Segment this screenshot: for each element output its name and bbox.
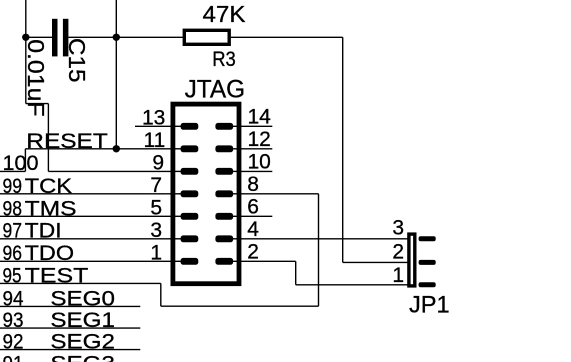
svg-text:6: 6 <box>247 195 259 218</box>
svg-text:3: 3 <box>392 216 404 239</box>
wire: JTAG pin 14 inner stub <box>231 125 241 127</box>
svg-text:SEG2: SEG2 <box>50 331 115 354</box>
svg-text:9: 9 <box>152 151 164 174</box>
wire: RESET net horizontal <box>25 148 171 150</box>
svg-text:8: 8 <box>247 173 259 196</box>
svg-text:TDO: TDO <box>25 242 75 265</box>
wire: JTAG pin 1 inner stub <box>171 260 182 262</box>
wire: JTAG pin 3 inner stub <box>171 238 182 240</box>
wire: to JP1 pin 1 <box>296 284 408 286</box>
svg-text:SEG0: SEG0 <box>50 287 115 310</box>
wire: JTAG pin 4 inner stub <box>231 238 241 240</box>
wire: JTAG pin 6 inner stub <box>231 215 241 217</box>
JTAG pin numbers left column <box>142 106 165 264</box>
header JP1 body <box>409 234 415 286</box>
svg-text:11: 11 <box>143 129 165 152</box>
svg-text:92: 92 <box>3 331 24 354</box>
svg-text:13: 13 <box>142 106 165 129</box>
wire: SEG0 stub <box>0 305 140 307</box>
svg-text:1: 1 <box>150 241 162 264</box>
resistor R3 body <box>184 30 229 44</box>
svg-text:10: 10 <box>248 150 271 173</box>
wire: TDI to JTAG pin 3 <box>0 238 172 240</box>
wire: JTAG pin 2 stub <box>240 260 295 262</box>
wire: vertical down to JP1 pin2 level <box>342 37 344 262</box>
wire: JTAG pin 12 stub <box>240 148 272 150</box>
wire: vertical from top edge into node A <box>25 0 27 104</box>
capacitor C15 right plate <box>63 19 69 57</box>
wire: TEST bottom horizontal <box>161 305 319 307</box>
JTAG pin 13 pad <box>181 123 199 130</box>
svg-text:14: 14 <box>248 105 272 128</box>
JTAG pin 8 pad <box>215 190 233 197</box>
JTAG pin 2 pad <box>215 258 233 265</box>
svg-text:TEST: TEST <box>25 265 89 288</box>
svg-text:47K: 47K <box>203 1 247 27</box>
svg-text:7: 7 <box>150 174 162 197</box>
JTAG pin 7 pad <box>181 190 199 197</box>
svg-text:TDI: TDI <box>25 220 62 243</box>
junction node B (116.3,37.3) <box>113 34 120 41</box>
wire: JTAG pin 7 inner stub <box>171 193 182 195</box>
svg-text:12: 12 <box>248 128 271 151</box>
junction node C on RESET (116.3,148.8) <box>113 145 120 152</box>
wire: to JTAG pin 9 <box>48 170 171 172</box>
wire: JTAG pin 9 inner stub <box>171 170 182 172</box>
JP1 pin pad 3 <box>419 236 436 241</box>
JP1 pin pad 2 <box>419 260 436 265</box>
svg-text:5: 5 <box>150 196 162 219</box>
wire: JTAG pin 13 inner stub <box>171 125 182 127</box>
JTAG pin 1 pad <box>181 258 199 265</box>
wire: JTAG pin 12 inner stub <box>231 148 241 150</box>
JTAG pin 12 pad <box>215 145 233 152</box>
svg-text:95: 95 <box>3 265 22 288</box>
wire: SEG2 stub <box>0 349 140 351</box>
JTAG pin 4 pad <box>215 235 233 242</box>
wire: vertical up to pin 8 <box>318 194 320 306</box>
svg-text:2: 2 <box>392 240 404 263</box>
wire: R3 right to corner <box>231 36 343 38</box>
svg-text:SEG1: SEG1 <box>50 309 115 332</box>
wire: JTAG pin 14 stub <box>240 125 272 127</box>
svg-text:98: 98 <box>3 197 23 220</box>
svg-text:0.01uF: 0.01uF <box>23 39 49 116</box>
wire: pin 100 stub from left edge <box>0 170 25 172</box>
wire: node A to C15 left plate <box>26 36 52 38</box>
svg-text:RESET: RESET <box>26 130 108 153</box>
svg-text:JP1: JP1 <box>409 292 450 319</box>
JTAG pin 9 pad <box>181 168 199 175</box>
wire: JTAG pin 6 stub <box>240 215 272 217</box>
wire: JTAG pin 4 to JP1 pin 3 <box>240 238 408 240</box>
wire: JTAG pin 10 inner stub <box>231 170 241 172</box>
JTAG pin 11 pad <box>181 145 199 152</box>
wire: C15 right plate to R3 left <box>68 36 184 38</box>
wire: JTAG pin 13 stub <box>135 125 172 127</box>
wire: vertical down to pin9 line <box>47 104 49 172</box>
JP1 pin pad 1 <box>419 282 436 287</box>
capacitor C15 left plate <box>52 19 58 57</box>
svg-text:99: 99 <box>3 175 23 198</box>
wire: JTAG pin 5 inner stub <box>171 215 182 217</box>
svg-text:R3: R3 <box>212 48 236 71</box>
wire: short horizontal below node A <box>26 103 49 105</box>
svg-text:JTAG: JTAG <box>185 76 246 104</box>
JTAG pin numbers right column <box>247 105 271 263</box>
wire: vertical from top edge to RESET line <box>115 0 117 149</box>
svg-text:TMS: TMS <box>25 197 77 220</box>
wire: TDO to JTAG pin 1 <box>0 260 172 262</box>
wire: TEST horizontal <box>0 282 161 284</box>
svg-text:97: 97 <box>3 220 23 243</box>
wire: TCK to JTAG pin 7 <box>0 193 172 195</box>
wire: JTAG pin 10 stub <box>240 170 272 172</box>
svg-text:1: 1 <box>392 264 404 287</box>
svg-text:TCK: TCK <box>25 175 73 198</box>
wire: vertical RESET to pin100 stub <box>24 149 26 172</box>
wire: pin 2 vertical drop <box>295 261 297 285</box>
wire: JTAG pin 2 inner stub <box>231 260 241 262</box>
wire: to JP1 pin 2 <box>343 261 408 263</box>
svg-text:94: 94 <box>3 287 24 310</box>
wire: SEG1 stub <box>0 327 140 329</box>
JTAG pin 14 pad <box>215 123 233 130</box>
wire: TEST vertical <box>160 283 162 306</box>
svg-text:SEG3: SEG3 <box>50 352 115 362</box>
svg-text:4: 4 <box>247 218 259 241</box>
wire: TMS to JTAG pin 5 <box>0 215 172 217</box>
svg-text:100: 100 <box>3 152 39 175</box>
wire: JTAG pin 8 stub <box>240 193 318 195</box>
svg-text:91: 91 <box>3 352 24 362</box>
JTAG pin 5 pad <box>181 213 199 220</box>
svg-text:96: 96 <box>3 242 23 265</box>
JTAG pin 3 pad <box>181 235 199 242</box>
svg-text:3: 3 <box>150 219 162 242</box>
JTAG pin 6 pad <box>215 213 233 220</box>
junction node A (25.8,37.3) <box>22 34 29 41</box>
wire: JTAG pin 11 inner stub <box>171 148 182 150</box>
JTAG pin 10 pad <box>215 168 233 175</box>
connector JTAG body outline <box>173 104 239 284</box>
wire: JTAG pin 8 inner stub <box>231 193 241 195</box>
svg-text:C15: C15 <box>64 38 90 83</box>
svg-text:93: 93 <box>3 309 24 332</box>
svg-text:2: 2 <box>247 240 259 263</box>
